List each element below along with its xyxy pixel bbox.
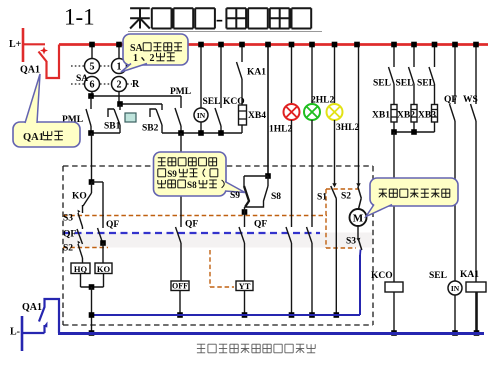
svg-text:5: 5: [90, 62, 95, 73]
svg-text:S3: S3: [63, 214, 73, 224]
svg-text:KCO: KCO: [371, 271, 393, 281]
svg-text:2: 2: [150, 53, 155, 64]
svg-text:XB2: XB2: [397, 111, 415, 121]
svg-text:2HL2: 2HL2: [311, 96, 334, 106]
svg-text:QF: QF: [185, 220, 198, 230]
svg-text:SEL: SEL: [203, 97, 221, 107]
svg-text:S1: S1: [317, 193, 327, 203]
svg-text:YT: YT: [239, 281, 251, 291]
svg-text:S3: S3: [346, 237, 356, 247]
svg-text:S2: S2: [63, 244, 73, 254]
svg-text:WS: WS: [463, 95, 478, 105]
svg-text:SEL: SEL: [429, 271, 447, 281]
svg-text:KA1: KA1: [460, 270, 479, 280]
svg-text:HQ: HQ: [74, 264, 88, 274]
svg-text:S9: S9: [230, 191, 240, 201]
svg-text:6: 6: [90, 80, 95, 91]
svg-text:SB2: SB2: [142, 124, 159, 134]
svg-text:1-1: 1-1: [64, 5, 95, 30]
svg-text:SEL: SEL: [396, 79, 414, 89]
svg-text:QF: QF: [106, 220, 119, 230]
svg-text:3HL2: 3HL2: [336, 123, 359, 133]
svg-text:2: 2: [117, 80, 122, 91]
svg-text:XB1: XB1: [372, 111, 390, 121]
svg-text:S9: S9: [167, 169, 177, 179]
svg-text:S2: S2: [341, 192, 351, 202]
svg-text:OFF: OFF: [172, 282, 188, 291]
svg-text:KO: KO: [97, 264, 111, 274]
svg-text:SA: SA: [76, 74, 88, 84]
svg-text:L+: L+: [9, 39, 22, 50]
svg-text:S8: S8: [187, 180, 197, 190]
svg-text:QF: QF: [444, 95, 457, 105]
svg-text:KCO: KCO: [223, 97, 245, 107]
svg-text:IN: IN: [451, 284, 460, 293]
svg-text:L-: L-: [10, 327, 20, 338]
svg-text:PML: PML: [170, 87, 191, 97]
svg-text:1: 1: [117, 62, 122, 73]
svg-text:XB3: XB3: [418, 111, 436, 121]
svg-text:R: R: [132, 79, 140, 90]
svg-text:-: -: [216, 6, 223, 31]
svg-text:QA1: QA1: [20, 65, 40, 76]
svg-text:KO: KO: [72, 192, 87, 202]
svg-text:SEL: SEL: [417, 79, 435, 89]
svg-text:1: 1: [133, 53, 138, 64]
svg-text:S8: S8: [271, 192, 281, 202]
svg-text:M: M: [353, 213, 364, 225]
svg-text:SB1: SB1: [104, 122, 121, 132]
svg-text:1HL2: 1HL2: [269, 125, 292, 135]
svg-text:XB4: XB4: [248, 111, 266, 121]
svg-text:QA1: QA1: [22, 302, 42, 313]
svg-text:KA1: KA1: [247, 68, 266, 78]
svg-text:SEL: SEL: [373, 79, 391, 89]
svg-text:IN: IN: [197, 111, 206, 120]
svg-text:QF: QF: [254, 220, 267, 230]
svg-text:QF: QF: [63, 230, 76, 240]
svg-text:QA1: QA1: [23, 132, 44, 143]
